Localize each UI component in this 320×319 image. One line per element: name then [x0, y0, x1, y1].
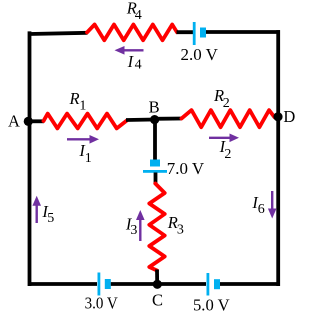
- wire battery 5.0V to bottom-right corner: [220, 282, 280, 286]
- svg-text:A: A: [8, 111, 20, 130]
- battery 5.0V long plate: [207, 273, 210, 296]
- wire node B to R2: [155, 117, 183, 121]
- arrow I5: [32, 196, 41, 223]
- node D: [273, 112, 282, 121]
- wire node B down to battery 7.0V: [153, 120, 157, 161]
- svg-text:C: C: [152, 291, 163, 310]
- svg-text:4: 4: [135, 8, 142, 23]
- resistor R2: [182, 110, 275, 127]
- wire top-left horizontal: [30, 33, 88, 34]
- arrow I4: [115, 46, 144, 55]
- wire battery 3.0V to node C: [111, 282, 157, 286]
- battery 5.0V short plate: [214, 279, 220, 289]
- resistor R1: [44, 114, 127, 129]
- resistor R4: [87, 25, 177, 41]
- svg-text:5.0 V: 5.0 V: [193, 296, 230, 315]
- svg-text:I: I: [127, 52, 135, 71]
- resistor R3: [149, 184, 164, 271]
- arrow I6: [268, 191, 277, 219]
- svg-text:6: 6: [258, 202, 265, 217]
- wire battery 7.0V to R3: [154, 173, 158, 185]
- battery 3.0V short plate: [105, 279, 111, 289]
- wire node C to battery 5.0V: [157, 282, 206, 286]
- svg-text:2: 2: [223, 96, 230, 111]
- svg-text:R: R: [69, 89, 80, 108]
- wire battery 2.0V to top-right corner: [206, 30, 280, 34]
- battery 2.0V short plate: [200, 28, 206, 38]
- svg-text:D: D: [283, 107, 295, 126]
- svg-text:1: 1: [79, 98, 86, 113]
- svg-text:3: 3: [177, 223, 184, 238]
- wire R3 to node C: [155, 270, 159, 285]
- wire R4 to battery 2.0V: [177, 30, 194, 34]
- node C: [153, 280, 162, 289]
- wire bottom-left to battery 3.0V: [30, 282, 98, 286]
- node A: [24, 117, 33, 126]
- svg-text:7.0 V: 7.0 V: [167, 159, 204, 178]
- wire left side vertical: [28, 31, 32, 286]
- arrow I2: [209, 134, 239, 143]
- svg-text:3.0 V: 3.0 V: [85, 293, 118, 312]
- svg-text:2.0 V: 2.0 V: [181, 45, 218, 64]
- svg-text:2: 2: [224, 147, 231, 162]
- arrow I1: [67, 135, 99, 144]
- battery 3.0V long plate: [98, 273, 101, 296]
- svg-text:4: 4: [135, 58, 142, 73]
- svg-text:B: B: [149, 98, 160, 117]
- battery 2.0V long plate: [193, 22, 196, 45]
- wire right side vertical: [276, 30, 280, 286]
- node B: [150, 115, 159, 124]
- svg-text:3: 3: [130, 223, 137, 238]
- wire R1 to node B: [126, 118, 155, 122]
- battery 7.0V short plate: [150, 160, 160, 167]
- wire node A to R1: [30, 119, 45, 123]
- battery 7.0V long plate: [143, 170, 167, 173]
- svg-text:5: 5: [47, 211, 54, 226]
- arrow I3: [136, 210, 145, 241]
- svg-text:1: 1: [85, 151, 92, 166]
